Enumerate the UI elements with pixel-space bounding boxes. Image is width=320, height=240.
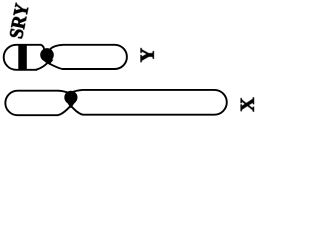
- Y short arm bottom neck: [36, 61, 49, 70]
- X centromere junction wedge: [66, 101, 75, 108]
- X left arm bottom neck: [58, 104, 72, 116]
- X left arm top neck: [58, 91, 70, 94]
- Y centromere: [40, 48, 54, 62]
- X left arm outline: [5, 91, 58, 116]
- X right arm outline: [83, 90, 227, 115]
- Y long arm outline: [62, 45, 127, 69]
- svg-text:Y: Y: [137, 47, 159, 62]
- svg-text:X: X: [237, 97, 259, 112]
- Y short arm top neck: [41, 45, 44, 50]
- X chromosome right arm fill: [71, 90, 227, 115]
- Y chromosome long arm fill: [48, 45, 127, 69]
- SRY band on Y short arm: [18, 44, 27, 70]
- Y short arm outline: [4, 45, 41, 70]
- Y centromere junction wedge: [44, 60, 54, 65]
- X right arm bottom neck: [69, 104, 82, 115]
- X centromere: [64, 91, 77, 104]
- X right arm top neck: [72, 90, 82, 92]
- Y chromosome short arm fill: [4, 45, 49, 70]
- X chromosome left arm fill: [5, 91, 71, 116]
- Y long arm top neck: [50, 45, 63, 50]
- Y long arm bottom neck: [45, 61, 62, 69]
